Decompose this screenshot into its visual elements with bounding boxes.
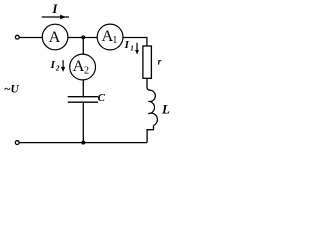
svg-text:1: 1 [130, 45, 134, 53]
svg-text:I: I [51, 1, 58, 16]
wire A to junction to A1 [68, 37, 97, 39]
node J1 (top junction) [81, 35, 85, 39]
arrow I1 (down) [136, 43, 138, 51]
svg-text:~U: ~U [4, 83, 20, 95]
svg-text:r: r [158, 56, 162, 66]
svg-text:I: I [50, 59, 56, 71]
wire top terminal to ammeter A [19, 37, 42, 39]
arrow I (current direction) [42, 16, 69, 18]
svg-text:C: C [98, 92, 106, 104]
bottom rail wire [19, 142, 147, 144]
svg-text:A: A [49, 27, 61, 46]
wire A1 to corner, down to resistor [123, 38, 147, 47]
inductor L (3 loops) [148, 90, 157, 125]
ammeter A2 [70, 54, 96, 80]
wire inductor bottom jog to bottom rail [147, 126, 153, 143]
terminal T1 (top input) [15, 35, 19, 39]
capacitor C plate 1 [68, 96, 98, 98]
resistor r [143, 46, 152, 78]
wire A2 branch from junction [82, 38, 84, 55]
wire resistor to inductor [147, 78, 151, 90]
svg-text:1: 1 [112, 35, 117, 46]
ammeter A [42, 24, 68, 50]
svg-text:A: A [73, 56, 85, 75]
arrow I2 (down) [62, 60, 64, 68]
ammeter A1 [97, 24, 123, 50]
capacitor C plate 2 [68, 101, 98, 103]
node J2 (bottom junction) [81, 141, 85, 145]
svg-text:L: L [161, 101, 170, 116]
terminal T2 (bottom input) [15, 141, 19, 145]
wire capacitor to bottom rail [82, 103, 84, 143]
svg-text:I: I [124, 39, 130, 51]
wire A2 to capacitor [82, 80, 84, 96]
svg-text:2: 2 [84, 66, 89, 77]
svg-text:2: 2 [55, 65, 60, 73]
